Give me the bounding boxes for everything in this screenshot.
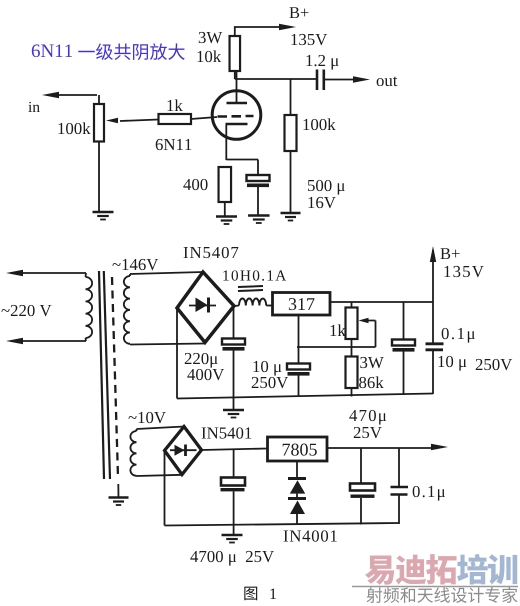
inductor 10H 0.1A choke <box>223 270 286 306</box>
label 500u 16V <box>308 180 345 208</box>
title 6N11 stage label <box>32 43 185 60</box>
regulator U3 7805 <box>268 437 328 461</box>
wire 317 adj <box>297 315 376 347</box>
node B+ PSU <box>430 246 484 344</box>
ground (PSU2) <box>222 525 243 543</box>
wire ground rail PSU2 <box>165 523 400 526</box>
wire bridge2 to 7805 <box>202 449 268 451</box>
watermark underline <box>352 586 518 588</box>
ground (PSU1) <box>223 398 244 418</box>
resistor 100k output load <box>285 79 336 213</box>
transformer T1 primary <box>86 273 93 341</box>
wire pot to ground <box>98 142 100 213</box>
capacitor 10u 250V adj <box>252 347 310 397</box>
wire cathode to bypass cap <box>226 159 258 161</box>
node in <box>28 92 97 112</box>
capacitor 220u 400V reservoir <box>185 306 245 399</box>
diode D2 IN4001 <box>288 494 306 525</box>
transformer secondary ~10V <box>128 412 184 476</box>
ground (100k) <box>281 213 301 221</box>
capacitor 0.1u output <box>426 344 444 394</box>
transformer core <box>99 271 118 479</box>
wire 7805 output <box>327 444 448 450</box>
wire bridge minus drop <box>176 308 178 399</box>
labels output caps <box>438 328 512 371</box>
capacitor 10u 250V output <box>392 302 415 395</box>
node ~220V mains <box>1 270 86 344</box>
potentiometer 100k input <box>58 95 158 142</box>
watermark logo yiditau <box>365 554 517 585</box>
label IN5407 <box>184 247 239 258</box>
regulator U2 317 <box>273 293 331 316</box>
wire plate node <box>235 71 316 79</box>
wire bridge2 minus drop <box>164 451 166 526</box>
resistor 3W 86k <box>346 357 384 397</box>
label IN5401 <box>202 427 252 438</box>
node B+ top <box>235 7 327 45</box>
wire ground rail PSU1 <box>177 394 433 399</box>
ground (transformer core) <box>109 484 129 505</box>
capacitor 0.1u PSU2 <box>391 448 445 525</box>
transformer secondary ~146V <box>112 259 205 345</box>
capacitor 4700u 25V <box>221 449 246 525</box>
resistor R 1k grid stopper <box>159 99 192 124</box>
capacitor 500u 16V cathode bypass <box>247 160 270 216</box>
capacitor 1.2u coupling <box>306 55 338 90</box>
label IN4001 <box>284 530 337 541</box>
ground (bypass cap) <box>248 216 269 224</box>
wire 317 output rail <box>330 301 433 303</box>
node out <box>324 76 398 86</box>
label 470u 25V <box>349 410 386 438</box>
resistor 3W 10k plate load <box>197 32 240 71</box>
ground (cathode R) <box>216 217 237 225</box>
watermark slogan <box>367 587 518 603</box>
potentiometer 1k adjust <box>330 302 368 357</box>
tube V1 6N11 triode <box>212 71 261 160</box>
bridge rectifier IN5401 <box>165 427 202 475</box>
bridge rectifier IN5407 <box>177 272 234 343</box>
resistor 400 cathode <box>183 167 231 216</box>
label 6N11 tube <box>156 139 192 150</box>
ground (input pot) <box>93 212 114 220</box>
wire 1k to grid <box>191 117 217 119</box>
capacitor 470u 25V output <box>350 448 375 525</box>
label 4700u 25V <box>190 551 274 566</box>
label figure 1 <box>244 587 276 601</box>
diode D1 IN4001 <box>288 461 306 494</box>
